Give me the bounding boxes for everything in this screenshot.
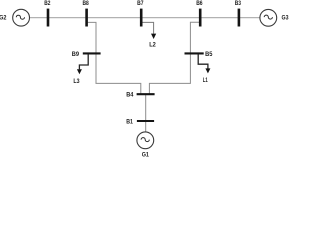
svg-text:B4: B4 <box>126 91 133 98</box>
generator G2 <box>13 9 30 26</box>
svg-text:B5: B5 <box>205 51 212 58</box>
bus B5 <box>185 52 204 54</box>
bus B4 <box>137 93 155 95</box>
svg-text:B2: B2 <box>44 0 50 7</box>
wire B4 to B1 to G1 <box>145 94 147 132</box>
svg-text:L2: L2 <box>149 41 156 48</box>
bus B2 <box>47 9 50 27</box>
svg-text:B8: B8 <box>83 0 89 7</box>
svg-text:B9: B9 <box>72 51 79 58</box>
bus B7 <box>140 9 143 27</box>
bus B3 <box>238 9 241 27</box>
wire B6 to B5 to B4 <box>149 22 200 94</box>
svg-text:G3: G3 <box>282 15 289 22</box>
svg-text:B3: B3 <box>235 0 241 7</box>
wire main top bus line G2 to G3 <box>29 17 260 19</box>
svg-text:L1: L1 <box>203 77 208 84</box>
bus B8 <box>85 9 88 27</box>
bus B1 <box>137 120 154 122</box>
load L3 <box>79 54 88 69</box>
bus B9 <box>83 52 101 54</box>
bus B6 <box>199 9 202 27</box>
svg-text:G1: G1 <box>142 152 149 158</box>
wire B7 jog to load L2 stem <box>141 22 153 33</box>
svg-text:B7: B7 <box>137 0 144 7</box>
svg-text:B1: B1 <box>126 119 133 126</box>
svg-text:L3: L3 <box>73 78 79 85</box>
load L2 arrowhead <box>151 34 156 39</box>
svg-text:B6: B6 <box>196 0 203 7</box>
load L1 <box>198 54 208 68</box>
generator G3 <box>260 9 277 26</box>
svg-text:G2: G2 <box>0 14 7 21</box>
generator G1 <box>137 132 154 149</box>
wire B8 to B9 to B4 <box>87 22 141 94</box>
